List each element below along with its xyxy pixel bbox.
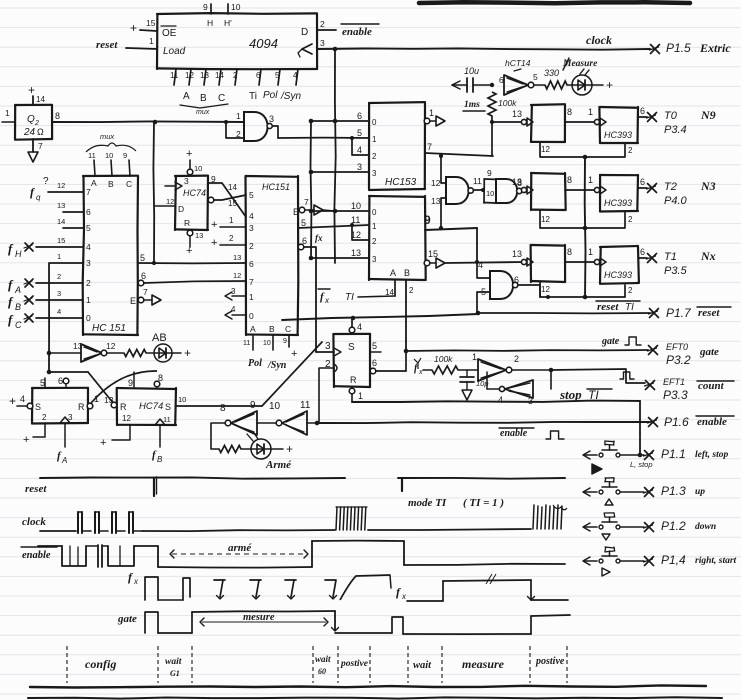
U12 clock pin 3 fA	[57, 413, 73, 465]
svg-text:T1: T1	[664, 251, 677, 263]
svg-text:9: 9	[487, 168, 492, 178]
junction reset TI node	[476, 311, 481, 316]
wire 100k to counter clock row1	[490, 116, 522, 156]
U7 D pin 2	[325, 359, 337, 372]
Q2 pin 1 input stub	[2, 108, 15, 122]
svg-text:( TI = 1 ): ( TI = 1 )	[463, 497, 504, 509]
svg-text:4: 4	[498, 395, 503, 405]
U2 input pin 15 (D4) wire	[36, 236, 91, 252]
svg-text:1: 1	[229, 216, 234, 225]
U7 output 5 stub	[371, 341, 381, 352]
svg-text:mesure: mesure	[243, 612, 275, 623]
svg-text:7: 7	[143, 287, 148, 297]
svg-text:4: 4	[357, 322, 362, 332]
label Pol under U4	[248, 358, 262, 369]
svg-text:Q: Q	[27, 114, 35, 125]
svg-text:8: 8	[220, 403, 226, 414]
net label stop TI	[559, 387, 612, 402]
resistor 330	[544, 68, 572, 89]
U1 pin 10 stub	[224, 2, 241, 28]
U2 input pin 4 (D0) wire	[36, 307, 91, 323]
annotation wait 60	[315, 654, 331, 676]
U2 input pin 2 (D2) wire	[36, 272, 91, 288]
resistor 100k vertical	[488, 92, 517, 116]
svg-text:4: 4	[20, 394, 25, 404]
junction select vertical y121	[309, 119, 314, 124]
svg-text:6: 6	[640, 247, 645, 257]
junction U6 input row	[439, 154, 443, 158]
svg-text:S: S	[35, 402, 41, 412]
svg-text:/Syn: /Syn	[267, 360, 287, 371]
U5 output 1 inverted with strobe triangle	[424, 108, 445, 126]
LED D1 measure	[562, 58, 613, 95]
wire S line from U7 set	[282, 314, 478, 320]
wire gate line to port P3.2	[404, 349, 648, 354]
svg-text:A: A	[183, 91, 190, 102]
net label gate with pulse glyph	[601, 336, 641, 347]
svg-text:3: 3	[372, 255, 377, 264]
svg-text:left, stop: left, stop	[695, 450, 728, 460]
svg-text:5: 5	[301, 218, 306, 228]
svg-text:T0: T0	[664, 110, 678, 122]
wire stop TI row	[352, 401, 640, 402]
svg-text:TI: TI	[345, 292, 354, 303]
svg-text:15: 15	[228, 199, 237, 208]
svg-text:12: 12	[166, 197, 174, 206]
IC U5 HC153 upper half	[369, 102, 425, 190]
wire U6c input 4 from row3 line	[477, 262, 490, 278]
svg-text:3: 3	[68, 413, 73, 422]
svg-text:P1.1: P1.1	[661, 447, 686, 461]
flip-flop U13 HC74 right	[117, 388, 176, 425]
svg-text:B: B	[108, 179, 114, 189]
svg-text:P1.6: P1.6	[664, 415, 689, 429]
svg-text:enable: enable	[500, 428, 528, 439]
Q2 pin 14 supply +	[28, 83, 45, 105]
svg-text:P3.5: P3.5	[664, 265, 688, 277]
svg-text:4: 4	[231, 305, 236, 314]
U7 reset pin 1 inverted	[349, 388, 363, 402]
junction 1ms node	[490, 83, 494, 87]
svg-text:1: 1	[5, 108, 10, 118]
wire cross couple horizontal	[49, 371, 88, 373]
wire stub U5 input 12	[350, 223, 369, 240]
junction select vertical y258	[309, 256, 314, 261]
annotation postive right	[535, 656, 565, 667]
svg-text:6: 6	[640, 177, 645, 187]
U7 set pin 4 inverted	[349, 318, 362, 333]
svg-text:2: 2	[42, 413, 47, 422]
svg-text:H': H'	[224, 18, 232, 28]
junction counter reset trunk row2	[583, 226, 588, 231]
junction counter reset trunk row1	[583, 155, 588, 160]
svg-text:T2: T2	[664, 181, 677, 193]
U13 clock pin 11 fB	[152, 415, 171, 464]
svg-text:6: 6	[249, 259, 254, 269]
svg-text:2: 2	[34, 120, 39, 127]
svg-text:15: 15	[57, 236, 65, 245]
svg-text:12: 12	[541, 285, 550, 294]
svg-text:+: +	[130, 21, 137, 35]
svg-text:reset: reset	[597, 301, 619, 313]
push button P1.1	[583, 441, 728, 474]
svg-text:1: 1	[236, 111, 241, 121]
label 1ms underlined	[463, 100, 485, 111]
svg-text:reset: reset	[96, 39, 118, 51]
svg-text:+: +	[9, 394, 16, 408]
wire row2 counter reset pins 12 and 2	[540, 210, 633, 228]
svg-text:C: C	[218, 93, 225, 104]
wire U11a input loop to arme LED	[211, 423, 225, 449]
svg-text:+: +	[291, 348, 297, 360]
svg-text:B: B	[269, 324, 275, 334]
svg-text:R: R	[184, 218, 190, 228]
svg-text:1: 1	[588, 247, 593, 257]
U5 lower pin 10 label	[351, 201, 377, 217]
svg-text:+: +	[211, 237, 217, 249]
U12 top pins 5 6	[40, 376, 69, 388]
svg-text:1: 1	[57, 252, 61, 261]
U4 enable E output pin 7 with strobe triangle	[293, 197, 335, 217]
svg-text:EFT0: EFT0	[666, 342, 688, 352]
svg-text:13: 13	[431, 196, 441, 206]
U2 top pin 9 stub	[123, 151, 130, 176]
svg-text:/Syn: /Syn	[280, 91, 301, 102]
push button P1.3	[583, 478, 705, 505]
U4 pin D6 inner label	[249, 259, 254, 269]
svg-text:E: E	[293, 207, 299, 217]
svg-text:gate: gate	[699, 346, 719, 358]
svg-text:gate: gate	[601, 336, 620, 347]
svg-text:HC393: HC393	[604, 130, 632, 140]
svg-text:15: 15	[146, 18, 156, 28]
U3 pin 10 set with +	[186, 148, 202, 175]
svg-text:A: A	[61, 456, 67, 465]
net label enable (active low)	[341, 24, 379, 38]
svg-text:4: 4	[86, 242, 91, 252]
svg-text:12: 12	[233, 271, 241, 280]
U2 enable pin 7 E with strobe triangle	[130, 287, 161, 306]
svg-text:+: +	[100, 437, 106, 449]
wire U11 stage A out 8 to stage B	[565, 247, 594, 262]
svg-text:S: S	[165, 402, 171, 412]
U4 pin labels 14 15	[228, 183, 237, 208]
svg-text:3: 3	[325, 341, 331, 352]
svg-text:24: 24	[23, 127, 36, 138]
U12 set input pin 4 with +	[9, 394, 41, 412]
U1 pin 9 stub	[203, 2, 213, 28]
timing label fx second	[396, 585, 407, 601]
svg-text:3: 3	[184, 176, 189, 186]
svg-text:10: 10	[351, 201, 361, 211]
wire T2 output to port	[638, 247, 647, 258]
svg-text:1: 1	[588, 175, 593, 185]
svg-text:6: 6	[58, 376, 63, 386]
net label TI to U5 select A	[345, 292, 395, 303]
svg-text:12: 12	[541, 145, 550, 154]
svg-text:A: A	[14, 285, 21, 295]
net label fq with question mark	[30, 176, 49, 202]
svg-text:14: 14	[215, 71, 224, 80]
svg-text:mux: mux	[196, 109, 210, 116]
U1 pin 2 D output to enable net	[317, 19, 336, 30]
svg-text:3: 3	[269, 114, 274, 124]
U1 pin 12 stub	[185, 69, 194, 85]
junction enable vertical upper	[47, 351, 52, 356]
svg-text:B: B	[157, 455, 163, 464]
U3 output 9 wire crossing to U4 pin 15	[208, 174, 246, 217]
counter U10b HC393 stage B	[588, 175, 638, 212]
svg-text:7: 7	[427, 142, 432, 152]
U2 input pin 3 (D1) wire	[36, 289, 91, 305]
wire 9 line junction vertical	[475, 228, 479, 264]
U1 pin 14 stub	[215, 69, 224, 85]
junction clock node	[333, 47, 338, 52]
svg-text:3: 3	[320, 38, 325, 48]
U1 select label B	[200, 93, 207, 104]
gate G1 NAND	[236, 111, 274, 141]
svg-text:1: 1	[429, 108, 434, 118]
wire U10 stage A out 8 to stage B	[565, 175, 594, 190]
svg-text:Ω: Ω	[37, 127, 44, 137]
svg-text:100k: 100k	[434, 354, 453, 364]
svg-text:10: 10	[263, 340, 271, 347]
svg-text:2: 2	[372, 152, 377, 161]
U2 input pin 14 (D5) wire	[57, 217, 91, 233]
svg-text:6: 6	[640, 106, 645, 116]
U7 output 6 inverted to gate net	[370, 352, 406, 374]
svg-text:12: 12	[541, 215, 550, 224]
inverter U11b pins 10 11	[269, 400, 317, 435]
svg-text:Load: Load	[163, 46, 186, 57]
svg-text:H: H	[15, 249, 22, 259]
svg-text:R: R	[120, 402, 127, 412]
inverter U11c pins 13 12	[49, 341, 124, 362]
wire select distribution vertical	[310, 121, 313, 258]
U1 pin 11 stub	[170, 69, 179, 85]
U12 reset pin 1	[78, 394, 99, 412]
svg-text:N9: N9	[700, 108, 716, 122]
svg-text:AB: AB	[152, 332, 167, 344]
wire row1 counter reset pins 12 and 2	[540, 142, 633, 157]
svg-text:6: 6	[256, 71, 261, 80]
U13 output S pin 10	[165, 395, 262, 412]
push button P1,4	[583, 547, 737, 576]
svg-text:8: 8	[567, 107, 572, 117]
svg-text:HC 151: HC 151	[92, 323, 126, 334]
svg-text:9: 9	[203, 2, 208, 12]
svg-text:2: 2	[514, 354, 519, 364]
inverter U8 HCT14	[499, 58, 545, 95]
U5 upper pin 5 label	[357, 128, 377, 144]
junction U6a to 9 line	[439, 226, 443, 230]
svg-text:A: A	[250, 324, 256, 334]
svg-text:13: 13	[512, 177, 522, 187]
svg-text:OE: OE	[162, 28, 177, 39]
svg-text:+: +	[186, 245, 192, 257]
svg-text:5: 5	[86, 223, 91, 233]
wire to U5 input 10	[311, 210, 369, 212]
svg-text:C: C	[126, 179, 132, 189]
svg-text:2: 2	[628, 146, 633, 155]
wire HC153 out 15 to row3 counter clock	[445, 262, 522, 263]
LED D3 AB	[152, 332, 191, 362]
annotation dashed separators	[67, 646, 567, 683]
svg-text:fx: fx	[315, 233, 323, 243]
svg-text:7: 7	[38, 141, 43, 151]
svg-text:+: +	[286, 442, 293, 456]
svg-text:13: 13	[512, 249, 522, 259]
wire T0 output to port	[638, 106, 647, 117]
svg-text:Extric: Extric	[699, 41, 731, 55]
timing trace reset	[40, 477, 565, 496]
svg-text:9: 9	[123, 151, 127, 160]
U5 select pins A B bottom	[385, 268, 414, 297]
counter U11b HC393 stage B	[588, 246, 639, 284]
junction select vertical y211	[309, 209, 314, 214]
svg-text:gate: gate	[117, 613, 137, 625]
U4 pin D3 inner label	[249, 223, 254, 233]
annotation arme span arrow	[170, 542, 308, 558]
wire clock trunk vertical	[334, 49, 335, 263]
svg-text:11: 11	[300, 400, 311, 411]
port P1.6 enable	[648, 415, 735, 429]
svg-text:2: 2	[409, 286, 414, 295]
junction clock trunk row1	[333, 119, 338, 124]
svg-text:2: 2	[628, 286, 633, 295]
svg-text:+: +	[606, 78, 613, 92]
U1 select label A	[183, 91, 190, 102]
svg-text:0: 0	[86, 313, 91, 323]
svg-text:N3: N3	[700, 179, 716, 193]
svg-text:2: 2	[57, 272, 61, 281]
timing trace enable	[38, 541, 565, 568]
junction U2 out5 with clock vertical	[152, 261, 156, 265]
svg-text:12: 12	[106, 341, 116, 351]
svg-text:330: 330	[544, 68, 559, 78]
port P1.7 reset	[649, 306, 732, 320]
U3 pin 3 clock input	[165, 176, 189, 190]
svg-text:5: 5	[275, 71, 280, 80]
U4 pin 13 label	[233, 253, 241, 262]
junction counter reset trunk row3	[583, 295, 588, 300]
svg-text:enable: enable	[342, 26, 372, 38]
U5 output 9 wire	[424, 213, 477, 230]
annotation wait G1	[165, 657, 182, 678]
svg-text:P1.5: P1.5	[666, 41, 691, 55]
U1 select label C	[218, 93, 225, 104]
resistor arme	[219, 446, 251, 453]
svg-text:10: 10	[194, 164, 202, 173]
U1 pin 5 stub	[275, 69, 280, 85]
svg-text:11: 11	[88, 151, 96, 160]
svg-text:3: 3	[357, 162, 362, 172]
svg-text:1: 1	[588, 107, 593, 117]
wire counter reset trunk vertical	[584, 157, 587, 297]
U1 pin label /Syn	[280, 91, 301, 102]
svg-text:P1.2: P1.2	[661, 519, 686, 533]
Q2 pin 7 ground	[28, 139, 43, 162]
svg-text:B: B	[200, 93, 207, 104]
wire T1 output to port	[638, 177, 647, 188]
wire cross to U13 reset	[88, 372, 114, 404]
port P3.4 output T0	[647, 108, 716, 136]
svg-text:13: 13	[200, 71, 209, 80]
svg-text:12: 12	[57, 181, 65, 190]
timing trace gate right	[392, 615, 570, 634]
net label clock	[586, 33, 612, 47]
U2 input pin 13 (D6) wire	[57, 201, 91, 217]
svg-text:R: R	[78, 402, 85, 412]
counter U9a HC393 stage A	[512, 104, 565, 142]
svg-text:Ti: Ti	[249, 91, 257, 102]
svg-text:1: 1	[86, 295, 91, 305]
svg-text:reset: reset	[698, 307, 720, 319]
U2 top pin 10 stub	[105, 151, 113, 176]
svg-text:14: 14	[57, 217, 65, 226]
net label fA crossed	[8, 277, 33, 295]
timing label reset	[25, 483, 47, 495]
net label reset to U1 pin 1	[96, 36, 157, 51]
svg-text:R: R	[350, 375, 357, 385]
wire row3 counter reset pins 12 and 2	[540, 282, 633, 297]
U5 lower pin 12 label	[351, 230, 377, 246]
annotation measure	[462, 657, 505, 671]
U2 output pin 6 inverted wire to U4 input 7	[138, 271, 246, 286]
U4 pin D0 inner label	[249, 311, 254, 321]
wire to G1 input 2	[226, 122, 244, 138]
svg-text:11: 11	[473, 176, 482, 186]
U5 output 15 inverted with strobe triangle	[424, 249, 445, 268]
resistor AB	[124, 350, 153, 357]
wire U6c output to counter reset trunk	[518, 285, 550, 299]
U1 pin 15 OE input with + supply	[130, 18, 157, 35]
svg-text:60: 60	[318, 667, 326, 676]
svg-text:8: 8	[567, 247, 572, 257]
svg-text:11: 11	[351, 215, 360, 225]
svg-text:P4.0: P4.0	[664, 195, 688, 207]
junction U7 set pin node	[351, 316, 356, 321]
svg-text:1: 1	[149, 36, 154, 46]
svg-text:6: 6	[357, 111, 362, 121]
svg-text:P1,4: P1,4	[661, 553, 686, 567]
svg-text:clock: clock	[22, 516, 46, 528]
svg-text:stop: stop	[559, 387, 582, 402]
timing trace fx left	[145, 575, 391, 600]
svg-text:14: 14	[228, 183, 237, 192]
svg-text:10: 10	[105, 151, 113, 160]
U4 pin 12 label	[233, 271, 241, 280]
U5 output 7 wire	[425, 142, 493, 156]
U4 pin 4 input with arrow	[225, 305, 246, 319]
svg-text:12: 12	[122, 414, 131, 423]
svg-text:HC393: HC393	[604, 270, 632, 280]
svg-text:HC151: HC151	[262, 182, 290, 192]
wire U2 pin1 branch vertical	[48, 263, 50, 372]
svg-text:up: up	[695, 487, 705, 497]
annotation mesure span arrow	[200, 612, 328, 626]
svg-text:13: 13	[57, 201, 65, 210]
U2 output pin 5 wire to U4 input 6	[138, 253, 246, 263]
svg-text:8: 8	[567, 175, 572, 185]
svg-text:13: 13	[512, 109, 522, 119]
wire U6a input 13 from T0 row	[441, 198, 446, 228]
svg-text:B: B	[404, 268, 410, 278]
svg-text:1: 1	[358, 391, 363, 401]
svg-text:q: q	[36, 193, 41, 202]
wire enable row to port P1.6	[317, 422, 650, 423]
wire U6b output to row2 counter clock	[0, 0, 1, 1]
